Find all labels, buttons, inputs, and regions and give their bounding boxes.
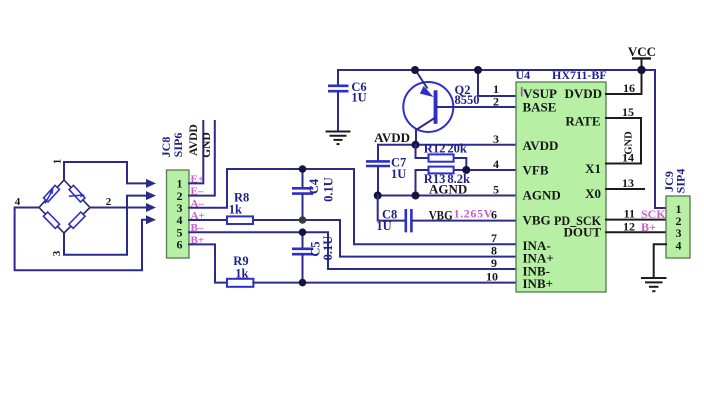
- C5 refdes: [309, 241, 323, 256]
- svg-text:DVDD: DVDD: [564, 86, 602, 101]
- svg-text:3: 3: [493, 132, 499, 146]
- net label E+: [191, 173, 205, 185]
- connector JC9 body: [666, 196, 690, 258]
- junction rail / VCC: [637, 66, 645, 74]
- R8 value 1k: [229, 202, 242, 216]
- U4 pin number 6: [491, 208, 497, 222]
- U4 pin2 label BASE: [523, 100, 557, 115]
- U4 pin12 label DOUT: [563, 224, 601, 239]
- U4 pin3 label AVDD: [523, 138, 559, 153]
- net label B+: [191, 234, 205, 246]
- JC8 pin 2 number: [177, 189, 183, 203]
- wire node2 to JC8 pin3: [90, 207, 146, 209]
- svg-text:1U: 1U: [376, 219, 391, 233]
- svg-text:20k: 20k: [447, 141, 467, 155]
- R13 value 8.2k: [447, 172, 470, 186]
- JC8 pin 5 number: [177, 225, 183, 239]
- junction AVDD: [412, 141, 420, 149]
- capacitor C6: [328, 70, 349, 131]
- bridge resistor bottom-right: [69, 212, 85, 228]
- wire B- net JC8 pin5 to U4 pin9: [189, 232, 516, 269]
- node 3 label: [51, 250, 63, 256]
- U4 pin number 15: [622, 105, 634, 119]
- Q2 base wire to U4 pin2: [438, 106, 517, 108]
- C8 value 1U: [376, 219, 391, 233]
- JC9 pin 2 number: [676, 214, 682, 228]
- JC8 type SIP6: [171, 133, 185, 158]
- wire node4 to JC8 pin4: [15, 208, 146, 271]
- R12 refdes: [424, 141, 446, 155]
- svg-text:VCC: VCC: [628, 44, 656, 59]
- U4 pin number 5: [493, 183, 499, 197]
- svg-text:DOUT: DOUT: [563, 224, 601, 239]
- U4 pin number 12: [623, 219, 635, 233]
- svg-text:1U: 1U: [351, 91, 366, 105]
- svg-text:13: 13: [622, 176, 634, 190]
- svg-text:4: 4: [15, 196, 21, 208]
- junction B+ / C5: [299, 279, 307, 287]
- svg-text:BASE: BASE: [523, 100, 557, 115]
- svg-text:RATE: RATE: [565, 113, 600, 128]
- R9 refdes: [233, 254, 248, 268]
- net label B+: [641, 220, 656, 234]
- svg-text:AGND: AGND: [429, 182, 467, 197]
- Q2 collector wire: [416, 118, 435, 145]
- U4 pin12 wire to JC9 pin3: [606, 231, 666, 233]
- junction rail / emitter: [411, 66, 419, 74]
- wire AGND row to U4 pin5: [378, 195, 516, 197]
- resistor R9: [227, 279, 253, 287]
- R9 value 1k: [235, 267, 248, 281]
- svg-text:16: 16: [623, 81, 635, 95]
- net label A+: [191, 210, 205, 222]
- svg-text:1: 1: [52, 159, 64, 165]
- JC9 refdes: [662, 171, 676, 192]
- op chip U4 HX711-BF body: [516, 82, 606, 292]
- U4 part name HX711-BF: [552, 68, 607, 82]
- R13 refdes: [424, 172, 446, 186]
- svg-text:HX711-BF: HX711-BF: [552, 68, 607, 82]
- U4 pin number 2: [493, 95, 499, 109]
- U4 pin10 label INB+: [523, 276, 554, 291]
- Q2 base bar: [434, 90, 438, 124]
- U4 pin14 label X1: [585, 161, 601, 176]
- wire AVDD row to U4 pin3: [378, 144, 516, 146]
- U4 pin number 1: [493, 82, 499, 96]
- svg-text:8550: 8550: [455, 93, 480, 107]
- transistor Q2 body: [403, 82, 453, 132]
- Q2 emitter wire with arrow: [415, 70, 434, 98]
- JC8 pin 1 number: [177, 177, 183, 191]
- U4 pin8 label INA+: [523, 251, 554, 266]
- U4 pin5 label AGND: [523, 188, 561, 203]
- U4 refdes: [516, 68, 531, 82]
- svg-text:VBG: VBG: [429, 208, 453, 223]
- junction AGND / C7: [374, 192, 382, 200]
- U4 pin7 label INA-: [523, 238, 551, 253]
- net value 1.265V: [454, 207, 493, 221]
- svg-text:AVDD: AVDD: [188, 124, 200, 156]
- junction A- / C4: [299, 165, 307, 173]
- svg-text:1k: 1k: [229, 202, 242, 216]
- wire JC8 pin1 to AVDD stub: [189, 121, 203, 183]
- svg-text:3: 3: [51, 250, 63, 256]
- net label AVDD vertical: [188, 124, 200, 156]
- svg-text:SIP4: SIP4: [674, 169, 688, 194]
- svg-text:2: 2: [106, 196, 112, 208]
- U4 pin1 label VSUP: [522, 86, 557, 101]
- C4 refdes: [307, 178, 321, 194]
- node 1 label: [52, 159, 64, 165]
- net label AGND: [429, 182, 467, 197]
- wire A- net JC8 pin3 to U4 pin7: [189, 169, 516, 244]
- JC8 pin 4 number: [177, 213, 183, 227]
- JC8 pin 3 number: [177, 201, 183, 215]
- svg-text:U4: U4: [516, 68, 531, 82]
- capacitor C8: [378, 196, 516, 233]
- U4 pin number 13: [622, 176, 634, 190]
- net label AVDD at Q2 collector: [374, 130, 410, 145]
- wire R8 to U4 pin8: [253, 220, 516, 257]
- capacitor C4: [292, 169, 313, 220]
- JC9 pin 1 number: [676, 202, 682, 216]
- svg-text:AVDD: AVDD: [374, 130, 410, 145]
- C5 value 0.1U: [321, 236, 335, 261]
- JC9 pin 4 number: [676, 238, 682, 252]
- junction AGND / R13: [412, 192, 420, 200]
- svg-text:4: 4: [676, 238, 682, 252]
- wire JC9 pin4 to ground: [654, 244, 666, 277]
- svg-text:6: 6: [177, 238, 183, 252]
- U4 pin number 11: [624, 207, 635, 221]
- net label GND vertical at pin14: [624, 131, 635, 155]
- junction A+ / C4: [299, 216, 307, 224]
- svg-text:9: 9: [491, 256, 497, 270]
- C6 value 1U: [351, 91, 366, 105]
- resistor R8: [227, 216, 253, 224]
- wire rail to U4 pin1: [478, 70, 516, 96]
- connector JC8 body: [167, 170, 190, 258]
- svg-text:SIP6: SIP6: [171, 133, 185, 158]
- svg-text:2: 2: [493, 95, 499, 109]
- svg-text:B+: B+: [641, 220, 656, 234]
- U4 pin11 wire to JC9 pin2: [606, 219, 666, 221]
- node 4 label: [15, 196, 21, 208]
- svg-text:5: 5: [493, 183, 499, 197]
- svg-text:1U: 1U: [391, 167, 406, 181]
- svg-text:C4: C4: [307, 178, 321, 194]
- resistor R13: [429, 167, 454, 174]
- wire rail down to JC9 pin1: [655, 70, 666, 208]
- svg-text:X0: X0: [585, 186, 601, 201]
- C7 value 1U: [391, 167, 406, 181]
- net label B-: [191, 222, 204, 234]
- node 2 label: [106, 196, 112, 208]
- strain arrow top-right: [69, 193, 85, 198]
- capacitor C5: [292, 232, 313, 282]
- junction B- / C5: [299, 228, 307, 236]
- wire top VSUP rail: [338, 69, 655, 71]
- U4 pin16 label DVDD: [564, 86, 602, 101]
- C8 refdes: [382, 208, 397, 222]
- JC8 pin 6 number: [177, 238, 183, 252]
- U4 pin number 16: [623, 81, 635, 95]
- C6 refdes: [351, 80, 366, 94]
- wire node3 to JC8 pin2: [64, 196, 146, 255]
- U4 pin number 8: [491, 244, 497, 258]
- svg-text:14: 14: [622, 151, 634, 165]
- U4 pin13 label X0: [585, 186, 601, 201]
- arrow into JC8 pin2: [146, 191, 156, 200]
- svg-text:INB+: INB+: [523, 276, 554, 291]
- wire R12 leads: [416, 145, 467, 170]
- R12 value 20k: [447, 141, 467, 155]
- Q2 refdes: [455, 83, 471, 97]
- ground below JC9: [641, 278, 667, 291]
- net label E-: [191, 186, 204, 198]
- svg-text:1k: 1k: [235, 267, 248, 281]
- strain arrow top-left: [45, 188, 54, 203]
- svg-text:R12: R12: [424, 141, 446, 155]
- JC9 type SIP4: [674, 169, 688, 194]
- svg-text:VFB: VFB: [523, 163, 549, 178]
- U4 pin15 label RATE: [565, 113, 600, 128]
- svg-text:AGND: AGND: [523, 188, 561, 203]
- C7 refdes: [391, 156, 406, 170]
- wire VFB row to U4 pin4: [466, 169, 516, 171]
- svg-text:0.1U: 0.1U: [322, 177, 336, 202]
- svg-text:12: 12: [623, 219, 635, 233]
- junction VFB: [462, 166, 470, 174]
- JC8 refdes: [159, 137, 173, 158]
- net label SCK: [641, 207, 666, 221]
- svg-text:GND: GND: [201, 132, 213, 158]
- capacitor C7: [366, 145, 390, 196]
- wire R13 leads: [416, 170, 467, 196]
- wire A+ net JC8 pin4 to R8: [189, 219, 227, 221]
- net label GND vertical: [201, 132, 213, 158]
- arrow into JC8 pin4: [146, 215, 156, 224]
- svg-text:6: 6: [491, 208, 497, 222]
- net label VBG: [429, 208, 453, 223]
- svg-text:AVDD: AVDD: [523, 138, 559, 153]
- wire JC8 pin2 to GND stub: [189, 121, 215, 196]
- U4 pin number 9: [491, 256, 497, 270]
- wire B+ net JC8 pin6 to R9: [189, 244, 227, 282]
- U4 pin13 stub (open): [606, 188, 644, 190]
- U4 pin15/pin14 stub to GND net: [606, 118, 641, 164]
- U4 pin number 7: [491, 231, 497, 245]
- U4 pin11 label PD_SCK: [554, 213, 602, 228]
- svg-text:15: 15: [622, 105, 634, 119]
- Q2 value 8550: [455, 93, 480, 107]
- junction rail / pin1: [474, 66, 482, 74]
- arrow into JC8 pin1: [146, 179, 156, 188]
- resistor R12: [429, 154, 454, 161]
- U4 pin16 stub to VCC: [606, 70, 642, 94]
- U4 pin number 10: [486, 270, 498, 284]
- ground below C6: [326, 132, 351, 145]
- wire R9 to U4 pin10: [253, 282, 516, 284]
- net label A-: [191, 198, 205, 210]
- arrow into JC8 pin3: [146, 203, 156, 212]
- power VCC symbol: [628, 44, 656, 70]
- U4 pin4 label VFB: [523, 163, 549, 178]
- svg-text:VBG: VBG: [523, 212, 551, 227]
- U4 pin number 4: [493, 157, 499, 171]
- U4 pin6 label VBG: [523, 212, 551, 227]
- svg-text:4: 4: [493, 157, 499, 171]
- R8 refdes: [234, 190, 249, 204]
- bridge sensor (Wheatstone) outline: [39, 180, 90, 233]
- svg-text:0.1U: 0.1U: [321, 236, 335, 261]
- U4 pin number 14: [622, 151, 634, 165]
- svg-text:10: 10: [486, 270, 498, 284]
- bridge resistor top-right: [69, 185, 85, 202]
- bridge resistor top-left: [44, 185, 60, 202]
- JC9 pin 3 number: [676, 226, 682, 240]
- U4 pin number 3: [493, 132, 499, 146]
- svg-text:X1: X1: [585, 161, 601, 176]
- U4 pin9 label INB-: [523, 264, 550, 279]
- bridge resistor bottom-left: [43, 212, 59, 228]
- wire node1 to JC8 pin1: [64, 162, 146, 183]
- C4 value 0.1U: [322, 177, 336, 202]
- svg-text:1.265V: 1.265V: [454, 207, 493, 221]
